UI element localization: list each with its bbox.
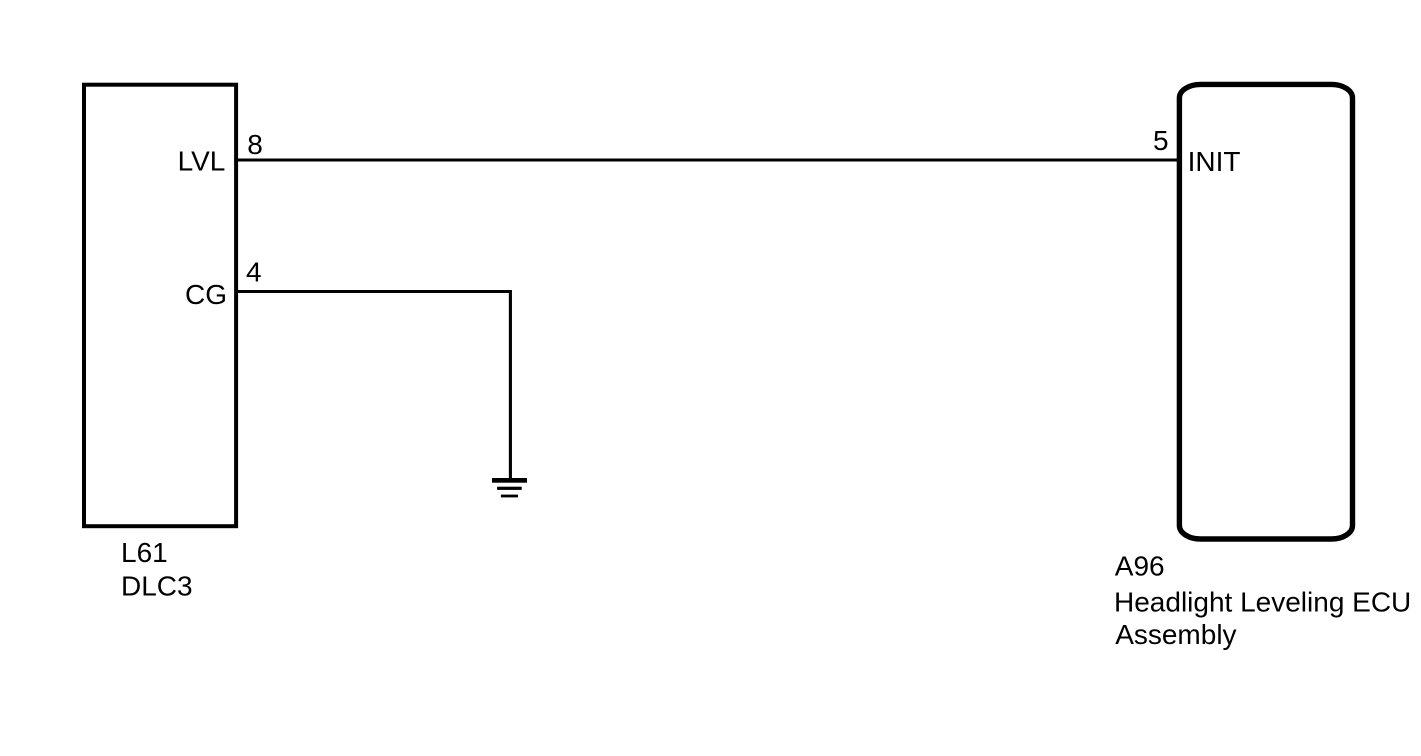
connector L61 DLC3 box <box>84 85 236 527</box>
svg-text:A96: A96 <box>1115 551 1165 582</box>
svg-text:L61: L61 <box>121 537 168 568</box>
svg-text:4: 4 <box>246 257 262 288</box>
svg-text:CG: CG <box>185 279 227 310</box>
svg-text:LVL: LVL <box>178 146 226 177</box>
svg-text:Headlight Leveling ECU: Headlight Leveling ECU <box>1114 586 1411 617</box>
svg-text:Assembly: Assembly <box>1115 619 1236 650</box>
svg-text:DLC3: DLC3 <box>121 571 193 602</box>
svg-text:INIT: INIT <box>1188 146 1241 177</box>
ground <box>492 478 527 497</box>
wire CG to ground <box>236 292 510 480</box>
svg-text:5: 5 <box>1153 125 1169 156</box>
svg-text:8: 8 <box>247 129 263 160</box>
wire LVL to INIT <box>236 158 1178 161</box>
ECU A96 box <box>1179 84 1352 539</box>
